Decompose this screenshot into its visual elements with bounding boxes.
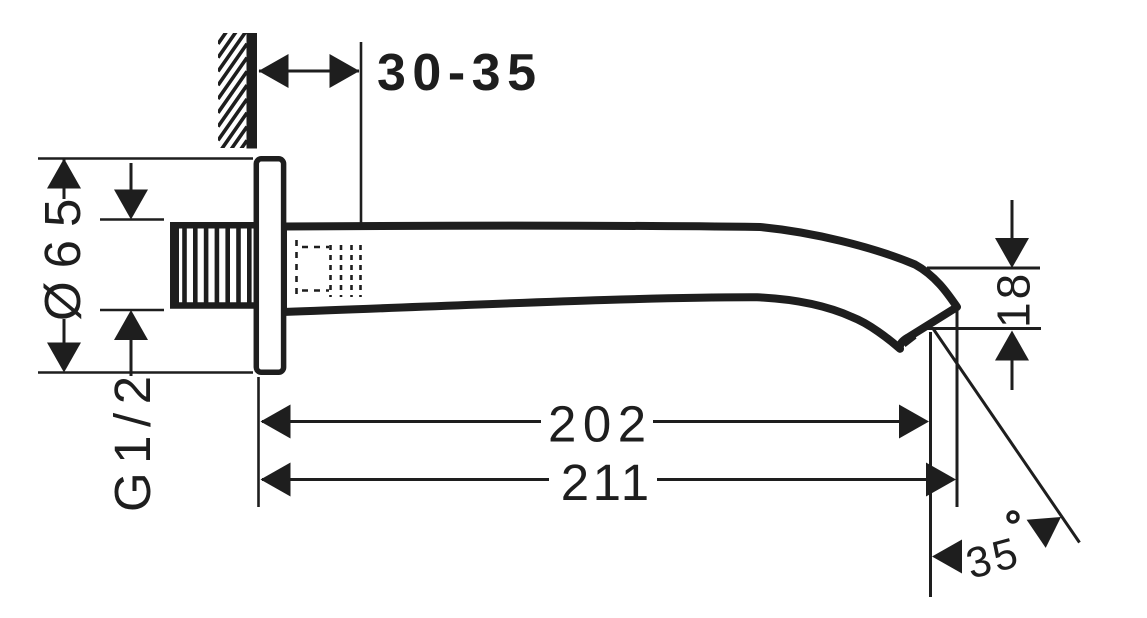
svg-text:18: 18 (988, 271, 1040, 328)
svg-text:202: 202 (548, 396, 653, 453)
svg-text:G1/2: G1/2 (104, 367, 161, 512)
svg-text:30-35: 30-35 (377, 44, 543, 102)
svg-text:Ø65: Ø65 (34, 186, 91, 321)
svg-text:211: 211 (561, 454, 653, 511)
